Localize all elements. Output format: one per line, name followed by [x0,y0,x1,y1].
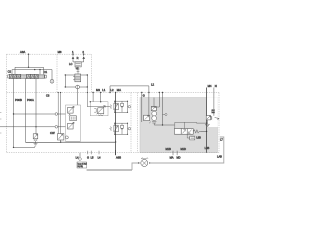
port circle B [55,113,58,116]
counterbalance valve CW2 [58,134,64,140]
solenoid valve W2 loop [114,123,131,135]
tank symbol CW1 [34,141,38,146]
svg-text:M4: M4 [208,84,212,88]
left edge stub marks [0,112,1,133]
wire A6A down [28,54,30,67]
main spool pilot frame [175,122,197,128]
wire collector [26,140,61,142]
shuttle piston LT [73,59,84,62]
svg-text:1: 1 [72,50,74,54]
svg-text:L6B: L6B [196,136,201,139]
svg-text:L6B: L6B [205,146,210,150]
svg-text:M1D: M1D [181,147,187,151]
port 2 junction [83,54,84,55]
wire MA trunk [115,93,117,156]
main spool valve [174,129,207,135]
junction A6A [28,54,29,55]
junction rail2 a [34,69,35,70]
check valve from port1 [72,54,74,56]
relief valve N [206,116,219,120]
logic valve E1 [68,106,75,115]
grey return line [87,169,132,171]
svg-text:G: G [87,155,89,159]
return filter [141,160,148,167]
svg-text:C2: C2 [8,70,12,74]
wire port line B [14,113,66,115]
solenoid valve W2 pilot line [108,128,111,130]
wire valve pilot rail 2 [12,70,52,80]
svg-text:N: N [215,84,217,88]
relief valve U1a [94,106,105,116]
wire L1 stub [100,93,102,102]
border divider vertical [56,54,58,92]
border right [218,93,220,153]
dashed enclosure left valve box [7,54,220,153]
check valve from port2 [83,54,85,56]
pilot box below spool [190,136,195,140]
counterbalance valve CW1 [33,134,38,141]
svg-text:C3: C3 [46,93,50,97]
solenoid valve W1 spring [110,105,111,109]
junction wire B [13,113,14,114]
junction rail2 b [39,69,40,70]
svg-text:L4: L4 [98,155,101,159]
wire tank drop [35,79,37,134]
wire L2 rail to manifold [110,86,149,115]
wire G trunk [141,93,143,123]
wire return riser [132,163,139,170]
svg-text:MA: MA [170,155,174,159]
svg-text:CW: CW [50,131,55,135]
pilot line to M4 trunk [196,122,206,124]
svg-text:L5: L5 [91,155,94,159]
gauge stub on trunk [163,114,166,116]
drain diamond [79,153,81,158]
svg-text:R: R [77,56,79,60]
wire P00A drop [25,79,27,143]
gauge port MP [50,79,54,83]
wire cluster feed [153,98,155,107]
wire N drop [213,88,215,116]
svg-text:L7: L7 [220,138,223,141]
svg-text:MA: MA [117,88,121,92]
svg-text:A6A: A6A [20,50,25,54]
junction filter out [149,162,150,163]
wire M4 trunk [206,88,208,153]
svg-text:L2: L2 [151,83,155,87]
svg-text:M3: M3 [96,88,100,92]
wire valve pilot rail 1 [15,67,44,74]
solenoid valve W1 pilot line [87,87,110,107]
svg-text:B (t`B): B (t`B) [78,165,84,168]
bypass loop rails [65,75,87,87]
svg-text:MD: MD [177,155,181,159]
svg-text:LC: LC [69,62,72,66]
feed lines to CW2 [58,93,60,134]
wire loop down [77,89,79,105]
border pilot box right [91,54,93,92]
logic valve E2 [68,122,75,129]
spring LT to relief [77,67,80,74]
manifold notch (white) [206,97,218,127]
pressure compensator block top [151,107,156,111]
svg-text:A6B: A6B [116,155,121,159]
wire pilot drop b [39,70,41,75]
junction filter in [138,162,139,163]
wire MA tick [172,151,174,156]
wire MD tick [176,151,178,156]
port circle A [55,126,58,129]
tank symbol N [205,120,210,127]
port ticks G L5 L4 [88,151,99,155]
metering pump circle 1 [152,111,157,116]
svg-text:C1: C1 [44,70,48,74]
svg-text:L2: L2 [110,88,114,92]
wire return run [150,137,224,163]
junction MA bottom [115,141,116,142]
wire P trunk 1 [158,93,160,108]
logic insert box [66,105,81,141]
junction wire A [35,126,36,127]
wire A6B stub [115,150,117,155]
junction rail corner [148,92,149,93]
wire CW1 feed [26,141,34,143]
svg-text:2: 2 [82,50,84,54]
relief block U1 [90,102,108,116]
wire port line A [0,126,66,128]
junction rail1 [28,67,29,68]
junction CW2 [60,142,61,143]
svg-text:M1B: M1B [166,147,172,151]
svg-text:P00B: P00B [15,98,22,102]
CW2 port circle [65,136,68,139]
solenoid valve W1 loop [114,101,131,113]
pump group marks below [149,122,156,124]
pilot relief valve [73,74,81,82]
wire P00B drop [13,79,15,148]
svg-text:M6: M6 [58,50,62,54]
wire M3 stub [92,93,94,102]
compensator valve left [144,115,150,120]
solenoid valve W2 spring [110,127,111,131]
svg-text:G: G [143,94,145,98]
svg-text:L1: L1 [102,88,106,92]
border bottom [7,152,220,154]
manifold block (grey) [140,98,218,153]
wire P trunk 2 [162,93,164,126]
wire CW1 drain line [14,146,35,147]
border left [6,54,8,153]
border mid horizontal [7,92,220,94]
orifice block [70,116,77,121]
spec text box [77,162,87,168]
svg-text:P00A: P00A [27,98,34,102]
wire pump to main valve [151,107,174,125]
directional valve V00 body [8,74,46,78]
metering pump circle 2 [152,116,157,121]
partition near manifold [130,93,132,153]
svg-text:LAB: LAB [217,155,222,159]
border top [7,53,92,55]
svg-text:bar: bar [212,111,215,114]
port 1 junction [72,54,73,55]
gauge circle on loop [76,85,80,89]
junction L2 [109,92,110,93]
